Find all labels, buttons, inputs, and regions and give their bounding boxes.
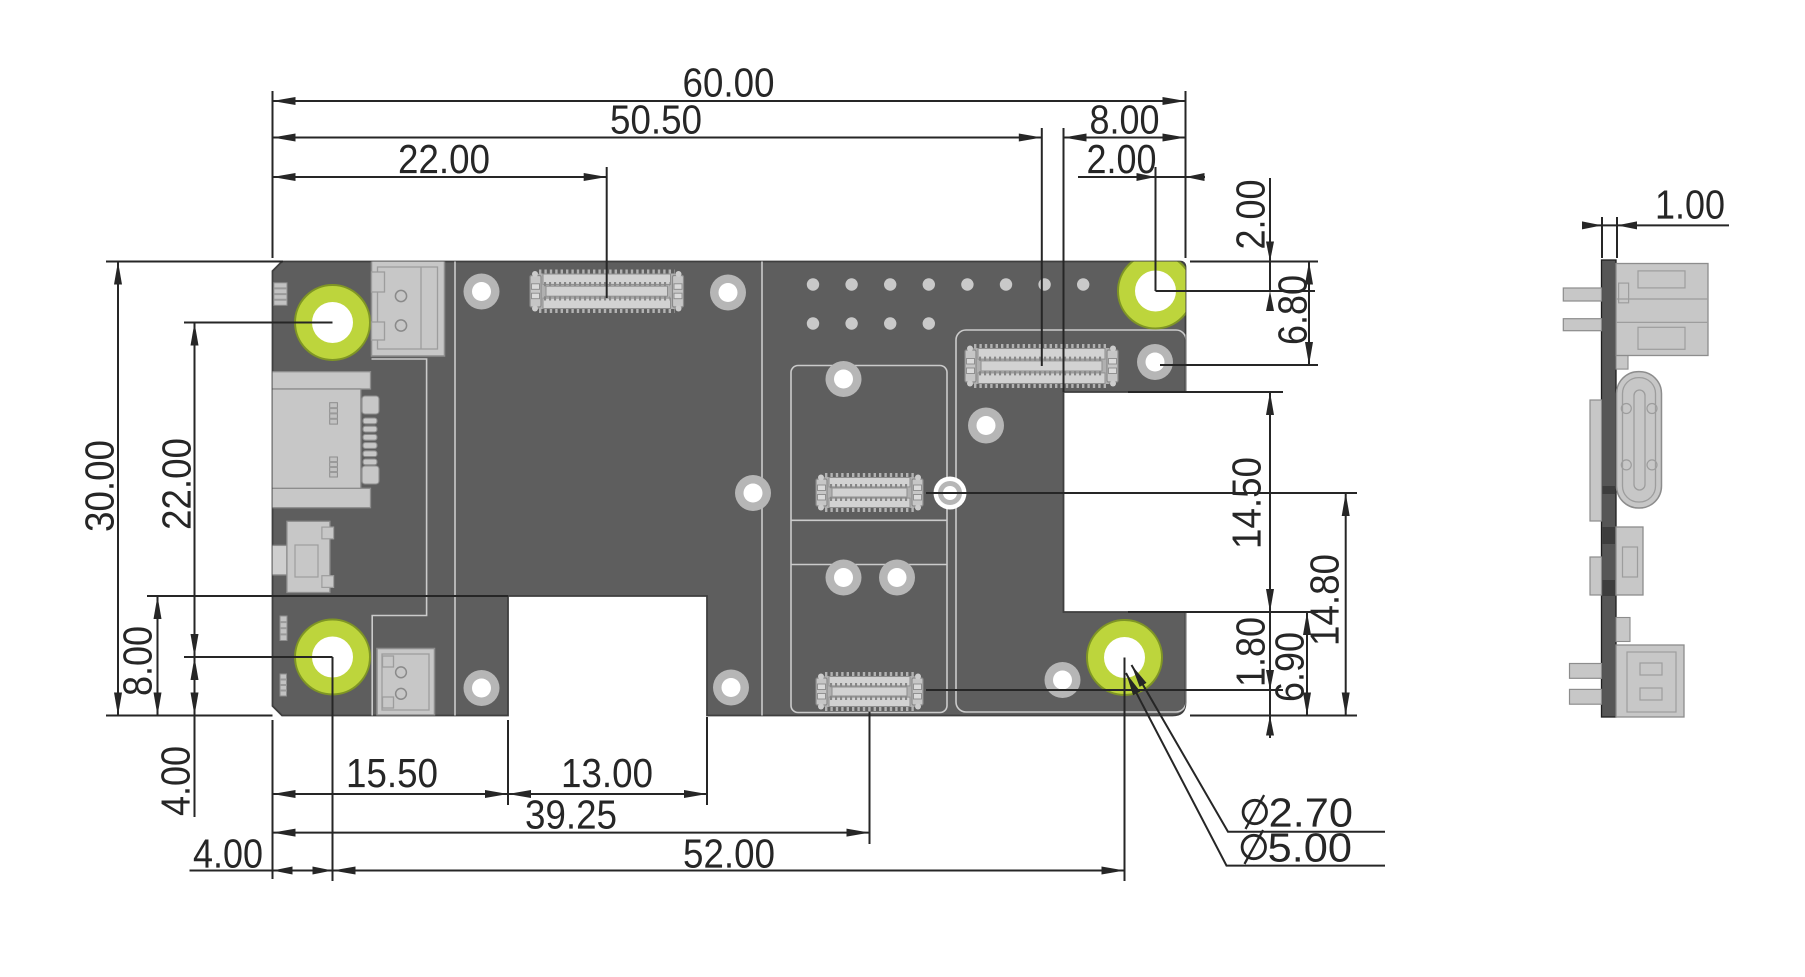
pad P2 (710, 275, 746, 311)
board surface silk lines (260, 254, 1193, 716)
mounting hole top-right (1118, 254, 1193, 329)
side-view switch SW1 (1590, 557, 1602, 595)
extension lines left (106, 261, 283, 263)
side-view JST J2 pins (1570, 664, 1602, 679)
silk courtyard around bottom connector (372, 359, 427, 716)
extension lines right (1190, 261, 1318, 263)
side-view JST J2 body (1616, 645, 1684, 717)
pad P8 (879, 560, 915, 596)
pad P10 (464, 670, 500, 706)
dimension 6.80 (1308, 262, 1310, 366)
side-view tab mid (1616, 618, 1630, 642)
extension lines top (272, 91, 274, 258)
silk divider line left (454, 262, 456, 716)
dimension 1.80 (1269, 612, 1271, 738)
dimension 60.00 (273, 100, 1186, 102)
passive D1 (274, 283, 287, 306)
passive C2 (280, 674, 287, 696)
JST connector J2 bottom-left (377, 649, 435, 716)
dimension 30.00 (117, 262, 119, 716)
dimension 39.25 (273, 832, 870, 834)
pad P5 (968, 408, 1004, 444)
pad P3 (1137, 344, 1173, 380)
pad P11 (1045, 662, 1081, 698)
side-view JST J1 pins (1563, 288, 1601, 301)
dimension 6.90 (1306, 612, 1308, 716)
silk divider line mid (761, 262, 763, 716)
hole diameter callout 2.70 (1132, 665, 1386, 832)
USB-C connector CN1 (plan) (260, 372, 371, 389)
pad P4 (826, 361, 862, 397)
side-view USB-C shell (1590, 400, 1602, 521)
mounting hole top-left (295, 285, 370, 360)
side-view JST J1 body (1616, 264, 1708, 356)
dimension 22.00 top (273, 176, 607, 178)
dimension 1.00 side view (1601, 217, 1603, 258)
test point dot grid (807, 278, 819, 290)
dimension 2.00 right vertical (1269, 178, 1271, 291)
dimension 8.00 top (1064, 137, 1186, 139)
dimension 52.00 (190, 870, 333, 872)
dimension 14.50 (1269, 392, 1271, 612)
board-to-board connector J4 top-right (974, 344, 1109, 348)
pad P12 white-ring (934, 477, 967, 510)
board-to-board connector J6 bottom (825, 672, 914, 676)
mounting hole bottom-right (1087, 620, 1162, 695)
dimension 50.50 (273, 137, 1042, 139)
hole diameter callout 5.00 (1126, 673, 1385, 866)
side-view tab below J1 (1616, 356, 1628, 370)
module outline right (footprint) (956, 330, 1186, 712)
dimension 13.00 (508, 793, 707, 795)
JST connector J1 top-left (372, 261, 445, 357)
dimension 8.00 left (157, 596, 159, 716)
push switch SW1 (plan) (264, 545, 287, 575)
passive C1 (280, 616, 287, 641)
dimension 15.50 (273, 793, 509, 795)
dimension 4.00 vertical (194, 657, 196, 716)
dimension 4.00 bottom (273, 867, 293, 875)
mounting hole bottom-left (295, 620, 370, 695)
dimension 14.80 (1345, 493, 1347, 716)
extension lines bottom (272, 720, 274, 879)
board-to-board connector J3 top-center (539, 270, 675, 274)
pad P7 (826, 560, 862, 596)
dimension 2.00 top-right (1078, 176, 1205, 178)
pad P6 (735, 475, 771, 511)
side-view PCB strip (1602, 260, 1617, 717)
module outline left (footprint) (791, 366, 947, 713)
dimension 22.00 left (194, 323, 196, 658)
pad P1 (464, 274, 500, 310)
pad P9 (713, 670, 749, 706)
board-to-board connector J5 middle (825, 473, 914, 477)
